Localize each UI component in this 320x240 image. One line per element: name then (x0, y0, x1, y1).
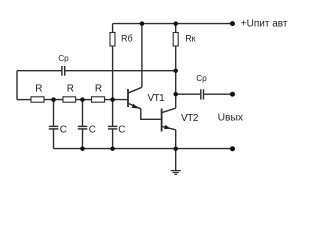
terminal dot +U (230, 21, 235, 26)
wire Rk bottom lead / VT2 collector line (175, 46, 177, 108)
wire VT1 emitter to VT2 base (141, 109, 161, 120)
svg-text:Rб: Rб (121, 34, 133, 44)
wire bottom rail (54, 148, 233, 150)
junction dot bottom C3 (110, 146, 115, 151)
transistor VT2 collector diagonal (162, 108, 176, 112)
transistor VT2 emitter arrow (164, 125, 170, 129)
wire Rb bottom lead to base node (112, 46, 114, 100)
junction dot node2 (80, 97, 85, 102)
junction dot output tap (173, 92, 178, 97)
junction dot VT1 collector / top rail (140, 21, 145, 26)
resistor Rб body (110, 33, 115, 47)
resistor R1 body (31, 97, 44, 102)
resistor Rк body (173, 33, 178, 47)
transistor VT2 base bar (161, 109, 163, 132)
svg-text:C: C (118, 124, 125, 135)
capacitor C2 top lead (82, 100, 84, 126)
junction dot Rk / top rail (173, 21, 178, 26)
capacitor C3 plates (108, 126, 118, 128)
capacitor C2 plates (78, 126, 88, 128)
ground lead (175, 149, 177, 171)
resistor R3 body (92, 97, 105, 102)
capacitor C1 plates (49, 126, 59, 128)
capacitor C1 top lead (53, 100, 55, 126)
wire R3 to VT1 base (105, 99, 128, 101)
svg-text:Cp: Cp (196, 74, 207, 83)
transistor VT1 emitter diagonal (129, 104, 141, 109)
svg-text:R: R (35, 84, 42, 95)
svg-text:VT2: VT2 (181, 113, 199, 124)
capacitor C3 bottom lead (112, 129, 114, 148)
junction dot bottom emitter/ground (173, 146, 178, 151)
transistor VT1 base bar (127, 89, 129, 107)
svg-text:R: R (67, 84, 74, 95)
svg-text:Cp: Cp (58, 54, 69, 63)
wire left vertical (16, 71, 18, 100)
svg-text:Rк: Rк (185, 34, 195, 44)
junction dot node3 (110, 97, 115, 102)
transistor VT1 collector diagonal (129, 87, 142, 93)
junction dot bottom C2 (80, 146, 85, 151)
capacitor Cp feedback plates (62, 66, 65, 76)
wire feedback right segment to VT2 collector node (65, 70, 175, 72)
wire Rb top lead (112, 24, 114, 33)
svg-text:R: R (95, 84, 102, 95)
wire Rk top lead (175, 24, 177, 33)
junction dot feedback tap (173, 68, 178, 73)
wire R2 to node2 (76, 99, 92, 101)
capacitor C1 bottom lead (53, 129, 55, 148)
resistor R2 body (63, 97, 76, 102)
wire output tap (176, 93, 201, 95)
wire top rail +U (113, 23, 233, 25)
capacitor C2 bottom lead (82, 129, 84, 148)
svg-text:+Uпит авт: +Uпит авт (241, 19, 288, 30)
terminal dot output (230, 92, 235, 97)
wire output to terminal (204, 93, 232, 95)
ground symbol (171, 171, 181, 175)
svg-text:VT1: VT1 (148, 93, 166, 104)
terminal dot bottom right (230, 146, 235, 151)
wire VT2 emitter vertical (175, 130, 177, 149)
transistor VT2 emitter diagonal (162, 126, 176, 129)
capacitor C3 top lead (112, 100, 114, 126)
svg-text:C: C (89, 124, 96, 135)
wire feedback left segment (17, 70, 61, 72)
svg-text:Uвых: Uвых (218, 113, 244, 124)
svg-text:C: C (60, 124, 67, 135)
junction dot node1 (51, 97, 56, 102)
wire base line left (17, 99, 31, 101)
wire VT1 collector vertical (141, 24, 143, 88)
capacitor Cp output plates (201, 89, 204, 99)
transistor VT1 emitter arrow (132, 104, 139, 109)
wire R1 to node1 (44, 99, 63, 101)
